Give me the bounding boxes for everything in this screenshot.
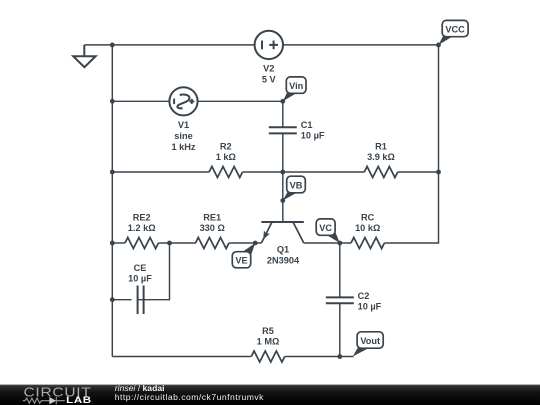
svg-text:3.9 kΩ: 3.9 kΩ	[367, 152, 395, 162]
svg-text:RE1: RE1	[203, 213, 221, 223]
wire top rail right (V2 to VCC node)	[283, 44, 438, 46]
wire R2 to mid node	[243, 171, 283, 173]
node flag VCC	[442, 20, 468, 36]
wire middle vertical C1 to base	[282, 133, 284, 222]
CircuitLab logo resistor-diode glyph	[23, 397, 65, 404]
svg-text:R1: R1	[375, 142, 387, 152]
svg-text:VE: VE	[235, 256, 247, 266]
wire bottom rail left	[112, 356, 251, 358]
wire V1 row right (to Vin node)	[198, 100, 283, 102]
node flag VB	[287, 176, 306, 193]
svg-text:VB: VB	[290, 180, 303, 190]
resistor R1	[364, 167, 397, 178]
svg-text:1.2 kΩ: 1.2 kΩ	[128, 223, 156, 233]
svg-text:10 µF: 10 µF	[301, 131, 325, 141]
svg-text:Q1: Q1	[277, 244, 289, 254]
svg-text:R2: R2	[220, 142, 232, 152]
resistor RC	[351, 238, 384, 249]
svg-text:2N3904: 2N3904	[267, 255, 300, 265]
svg-text:RE2: RE2	[133, 213, 151, 223]
wire top rail left (ground to V2)	[84, 44, 254, 46]
svg-text:C2: C2	[358, 291, 370, 301]
svg-text:http://circuitlab.com/ck7unfnt: http://circuitlab.com/ck7unfntrumvk	[115, 392, 264, 402]
svg-text:VCC: VCC	[445, 25, 465, 35]
node flag Vin tail	[283, 91, 297, 101]
svg-text:330 Ω: 330 Ω	[200, 223, 225, 233]
resistor R5	[251, 351, 284, 362]
svg-text:Vout: Vout	[360, 336, 380, 346]
svg-text:5 V: 5 V	[262, 75, 277, 85]
wire RE row: left to RE2	[112, 242, 125, 244]
voltage source V2	[255, 31, 283, 59]
resistor R2	[209, 167, 242, 178]
svg-text:Vin: Vin	[289, 81, 304, 91]
wire right vertical rail	[384, 45, 438, 243]
transistor Q1 emitter arrow	[263, 231, 270, 240]
svg-text:1 MΩ: 1 MΩ	[257, 337, 280, 347]
svg-text:LAB: LAB	[66, 395, 92, 405]
wire V1 row left	[112, 100, 169, 102]
wire CE to left rail	[112, 299, 131, 301]
node flag VC	[316, 219, 335, 235]
wire collector vertical to C2	[339, 243, 341, 297]
voltage source V1 (sine)	[169, 87, 197, 115]
svg-text:10 µF: 10 µF	[358, 301, 382, 311]
node flag VB tail	[283, 191, 297, 201]
resistor RE1	[196, 238, 229, 249]
node flag VCC tail	[439, 34, 453, 45]
svg-text:V2: V2	[263, 64, 274, 74]
svg-text:10 µF: 10 µF	[128, 274, 152, 284]
node flag VC tail	[327, 231, 340, 243]
node flag Vout	[357, 332, 383, 348]
svg-text:10 kΩ: 10 kΩ	[355, 223, 380, 233]
capacitor C2	[326, 297, 354, 303]
wire RE1 to emitter	[229, 242, 262, 244]
wire R1 to right rail	[398, 171, 439, 173]
wire C2 to bottom rail	[339, 303, 341, 356]
svg-text:VC: VC	[319, 223, 332, 233]
capacitor CE	[138, 286, 144, 315]
wire left vertical rail	[111, 45, 113, 357]
wire RC to VC node	[304, 242, 351, 244]
svg-text:1 kΩ: 1 kΩ	[216, 152, 236, 162]
wire middle vertical Vin to C1	[282, 101, 284, 127]
transistor Q1	[261, 221, 303, 223]
node flag VE	[232, 252, 250, 268]
svg-text:V1: V1	[178, 120, 189, 130]
wire bottom rail right	[285, 356, 354, 358]
svg-text:R5: R5	[262, 326, 274, 336]
svg-text:C1: C1	[301, 120, 313, 130]
svg-text:1 kHz: 1 kHz	[171, 142, 195, 152]
svg-text:CE: CE	[134, 263, 147, 273]
node flag Vout tail	[353, 346, 369, 357]
node flag VE tail	[243, 243, 256, 257]
capacitor C1	[269, 127, 297, 133]
svg-text:RC: RC	[361, 213, 375, 223]
wire CE branch vertical	[138, 243, 170, 300]
resistor RE2	[125, 238, 158, 249]
node flag Vin	[286, 77, 306, 93]
wire RE2 to junction	[158, 242, 196, 244]
ground	[73, 45, 95, 67]
wire mid node to R1	[283, 171, 365, 173]
svg-text:sine: sine	[174, 131, 192, 141]
wire R2 row: left to R2	[112, 171, 209, 173]
